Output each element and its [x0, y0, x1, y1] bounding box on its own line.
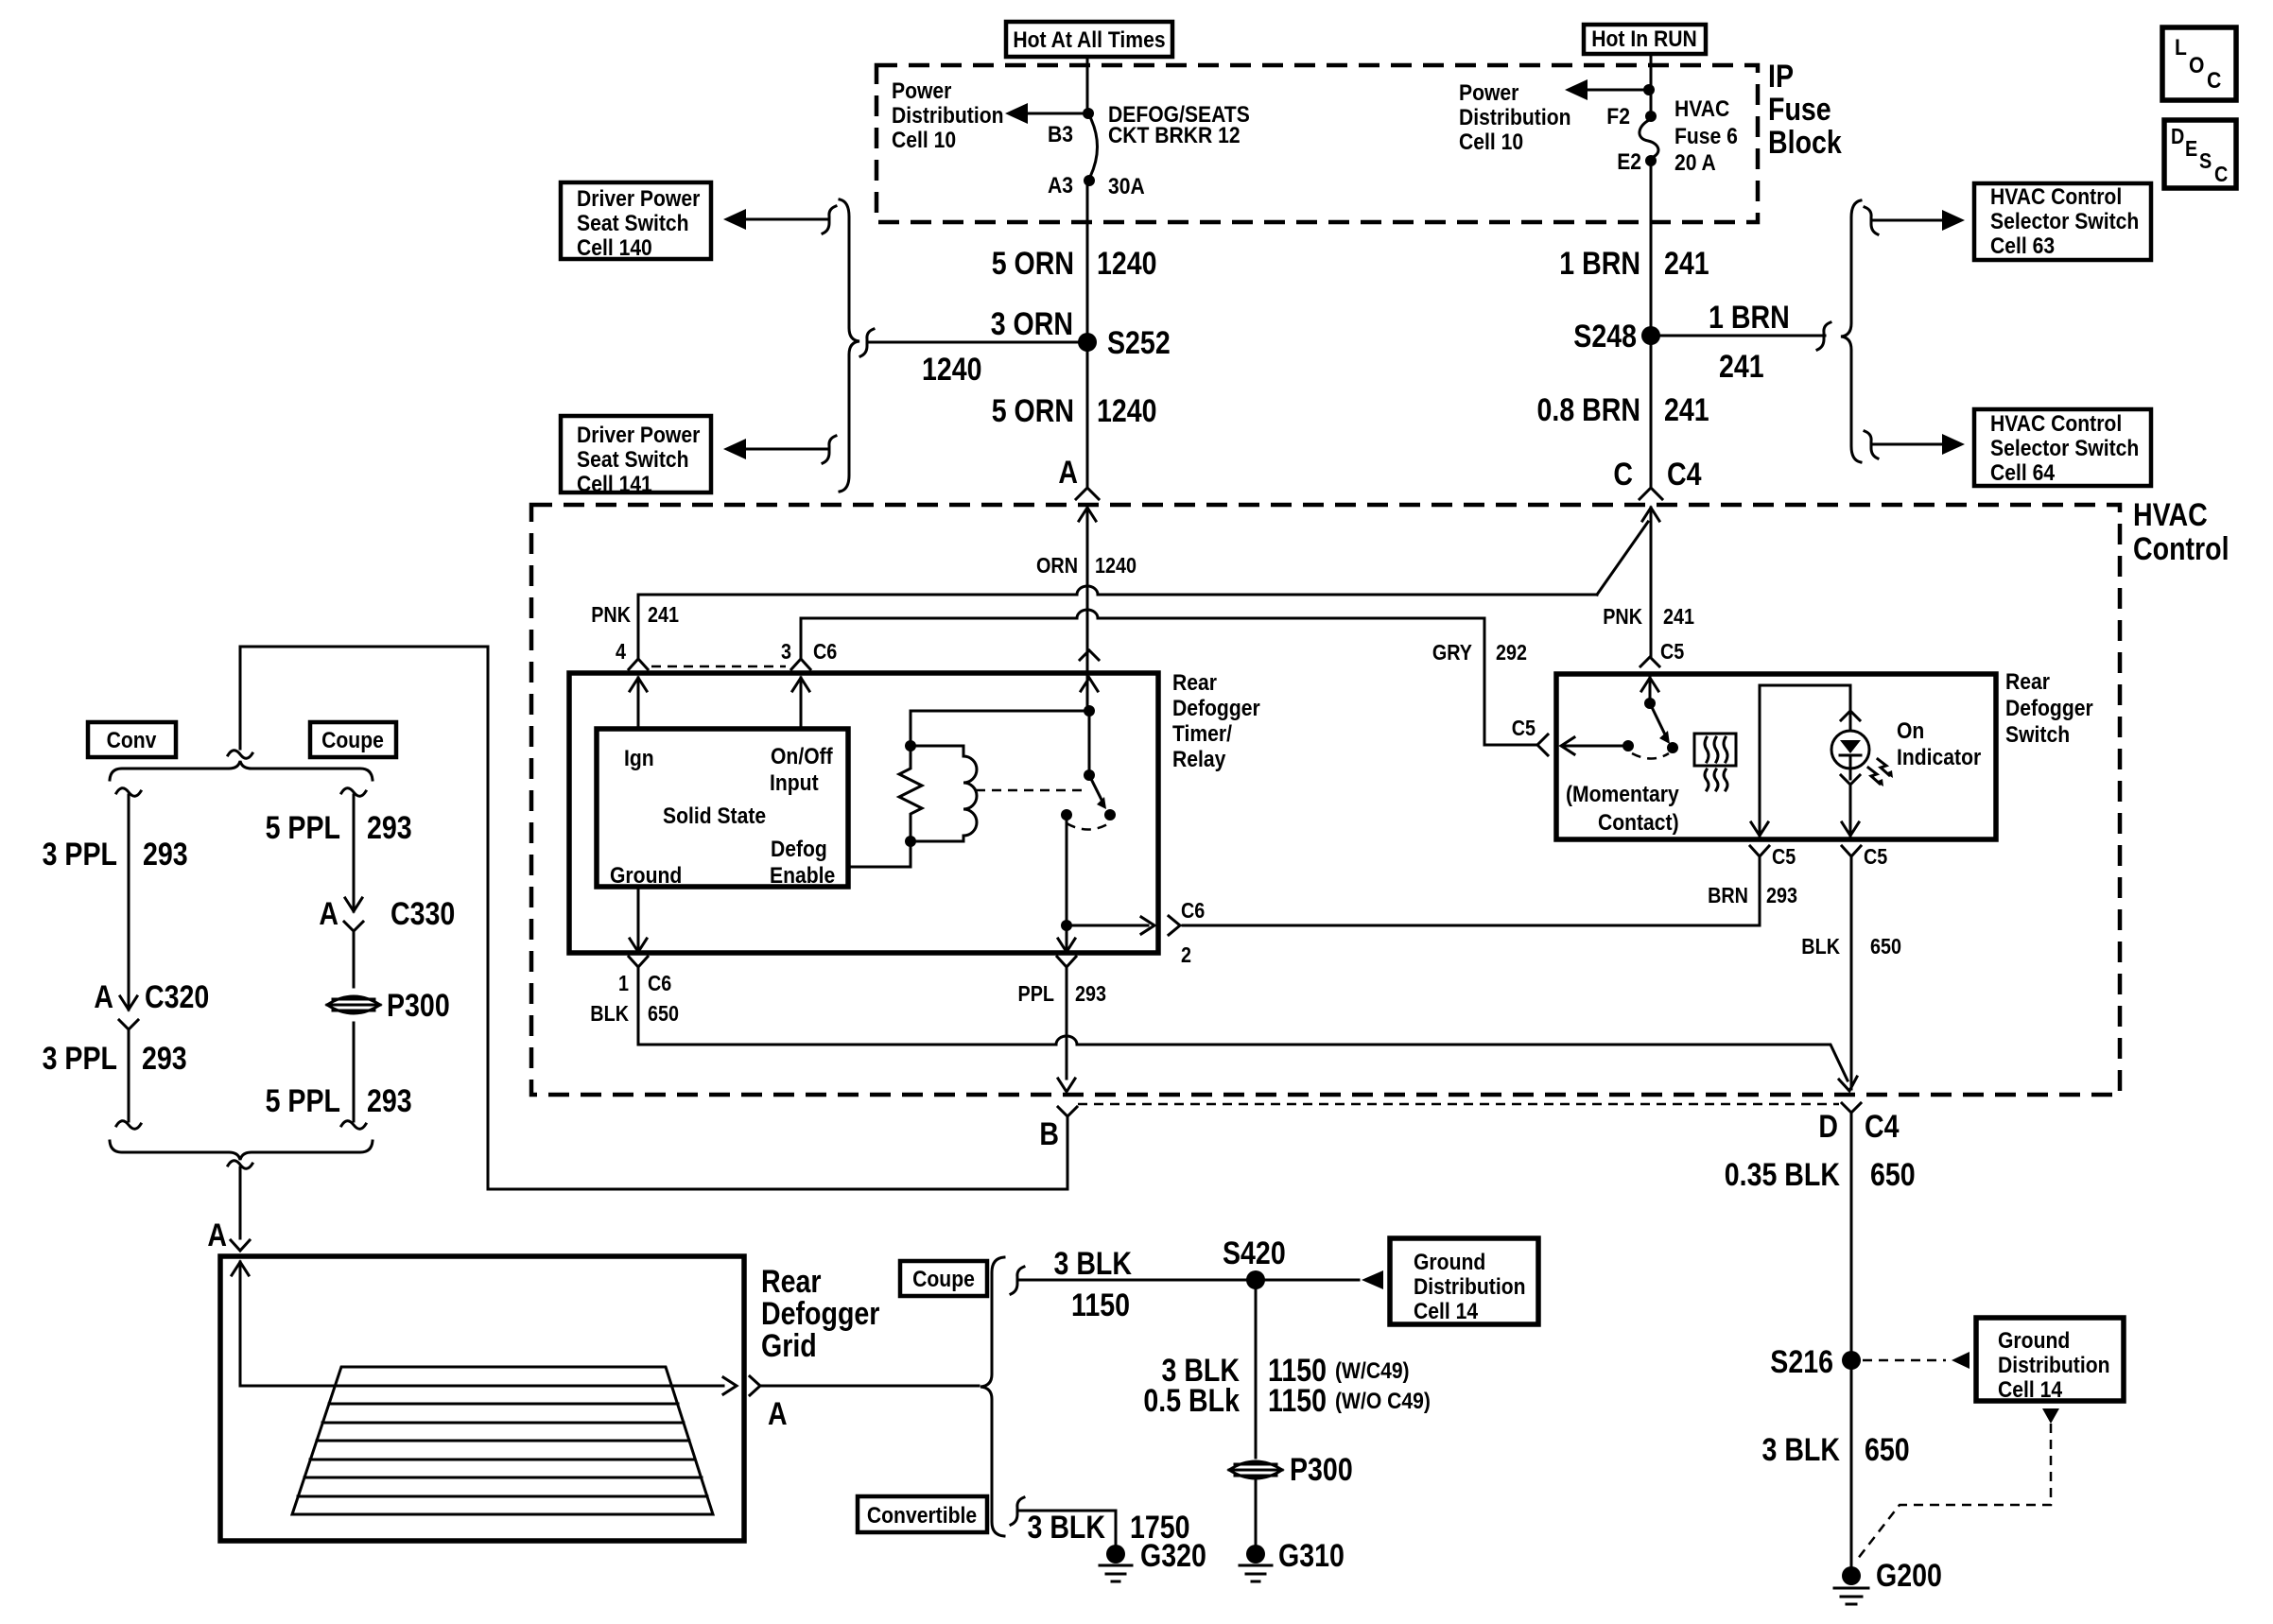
svg-text:PNK: PNK — [1603, 604, 1642, 629]
wire relay coil feed — [905, 508, 1095, 752]
svg-text:C6: C6 — [1181, 898, 1205, 923]
wire label 0.5 BLk 1150 (W/O C49) — [1143, 1383, 1431, 1419]
svg-text:Indicator: Indicator — [1897, 745, 1981, 770]
svg-text:3 PPL: 3 PPL — [43, 837, 117, 872]
wire label BLK 650 (relay ground) — [590, 1001, 679, 1026]
svg-text:293: 293 — [1766, 883, 1797, 907]
svg-text:(Momentary: (Momentary — [1566, 782, 1679, 807]
svg-text:HVAC Control: HVAC Control — [1990, 411, 2122, 437]
label box Coupe (top) — [310, 722, 396, 757]
label Rear Defogger Timer/Relay — [1172, 670, 1260, 772]
svg-text:Timer/: Timer/ — [1172, 721, 1232, 747]
wire grid output A — [240, 1377, 737, 1394]
svg-text:S420: S420 — [1223, 1235, 1286, 1271]
svg-text:20 A: 20 A — [1674, 150, 1716, 176]
wire arrow to Power Distribution Cell 10 (right) — [1565, 79, 1649, 100]
wire hot-in-run feed — [1650, 54, 1653, 115]
svg-text:C5: C5 — [1660, 639, 1684, 664]
wire into grid — [232, 1262, 249, 1386]
svg-text:D: D — [1818, 1109, 1838, 1145]
svg-text:C: C — [2214, 162, 2228, 186]
svg-text:650: 650 — [648, 1001, 679, 1026]
svg-text:Defogger: Defogger — [2005, 696, 2093, 721]
svg-text:Cell 63: Cell 63 — [1990, 233, 2055, 259]
svg-text:C6: C6 — [648, 971, 671, 995]
splice mark conv branch bottom — [116, 1121, 141, 1130]
wire BLK 650 from relay ground — [638, 967, 1857, 1091]
component box HVAC Control Selector Switch Cell 63 — [1974, 183, 2151, 260]
svg-text:HVAC Control: HVAC Control — [1990, 184, 2122, 210]
wire label PNK 241 (left) — [591, 602, 679, 627]
svg-text:1150: 1150 — [1071, 1287, 1130, 1323]
wire LED cathode out — [1841, 775, 1860, 836]
wire conv branch lower 3 PPL 293 — [43, 1029, 187, 1121]
svg-text:B3: B3 — [1048, 122, 1073, 147]
svg-text:1: 1 — [618, 971, 629, 995]
svg-text:1240: 1240 — [1097, 246, 1157, 282]
ground G310 — [1240, 1538, 1345, 1581]
wire PNK diagonal to connector C — [1597, 522, 1648, 595]
connector B of C4 — [1039, 1107, 1077, 1152]
wire label PNK 241 (right) — [1603, 604, 1694, 629]
label box Coupe (bottom) — [900, 1261, 987, 1296]
connector below relay (PPL) — [1057, 957, 1076, 967]
wire arrow to HVAC Control Selector Switch Cell 64 — [1865, 431, 1965, 458]
svg-text:30A: 30A — [1108, 174, 1145, 199]
component box Ground Distribution Cell 14 (lower) — [1976, 1318, 2124, 1403]
splice mark coupe branch bottom — [341, 1121, 366, 1130]
svg-text:650: 650 — [1870, 1157, 1916, 1193]
svg-text:Input: Input — [770, 770, 819, 796]
svg-text:C: C — [2207, 68, 2221, 94]
splice mark conv branch top — [116, 788, 141, 797]
svg-text:A: A — [319, 896, 338, 932]
connector A C330 — [319, 896, 455, 932]
svg-text:241: 241 — [648, 602, 679, 627]
dashed actuation linkage — [976, 789, 1084, 792]
LOC box — [2162, 27, 2236, 100]
svg-text:Power: Power — [892, 78, 951, 104]
wire BLK 650 down to D — [1850, 856, 1853, 1089]
wire B feedback loop to rear defogger grid — [240, 647, 1067, 1189]
wire label PPL 293 (relay out) — [1018, 981, 1107, 1006]
thin dashed connector C4 line — [1078, 1103, 1839, 1106]
circuit breaker DEFOG/SEATS CKT BRKR 12 30A — [1084, 117, 1098, 186]
label box Conv — [88, 722, 176, 757]
dashed arrow to Ground Distribution Cell 14 (S216) — [1863, 1352, 1969, 1369]
svg-text:C5: C5 — [1772, 844, 1796, 869]
svg-text:Fuse 6: Fuse 6 — [1674, 124, 1738, 149]
svg-text:5 ORN: 5 ORN — [992, 393, 1074, 429]
pin label Defog Enable — [770, 837, 835, 889]
pin label F2 — [1606, 104, 1630, 130]
connector pin 1 C6 below relay — [629, 957, 648, 967]
splice mark above Conv/Coupe brace — [228, 751, 252, 759]
connector label C5 (left of switch) — [1512, 716, 1536, 740]
connector D of C4 — [1818, 1103, 1899, 1145]
label Solid State — [663, 803, 766, 829]
brace merge Conv/Coupe (bottom) — [110, 1141, 373, 1160]
svg-text:4: 4 — [616, 639, 626, 664]
connector label C5 (top of switch) — [1660, 639, 1684, 664]
wire 3 BLK 1150 to S420 — [1019, 1246, 1359, 1323]
svg-text:293: 293 — [1075, 981, 1106, 1006]
text Power Distribution Cell 10 (left) — [892, 78, 1004, 153]
pin label E2 — [1617, 149, 1641, 175]
svg-text:B: B — [1039, 1116, 1059, 1152]
svg-text:Distribution: Distribution — [1459, 105, 1571, 130]
pin label B3 — [1048, 122, 1073, 147]
svg-text:650: 650 — [1870, 934, 1901, 959]
LED On Indicator — [1831, 685, 1869, 779]
svg-text:241: 241 — [1664, 392, 1709, 428]
label Rear Defogger Switch — [2005, 669, 2093, 748]
wire arrow to Power Distribution Cell 10 (left) — [1005, 103, 1087, 124]
svg-text:Coupe: Coupe — [912, 1267, 975, 1292]
svg-text:Switch: Switch — [2005, 722, 2070, 748]
svg-text:Convertible: Convertible — [867, 1503, 977, 1529]
wire label BLK 650 — [1801, 934, 1901, 959]
svg-text:G320: G320 — [1140, 1538, 1206, 1574]
dashed connector line C6 — [651, 665, 786, 668]
svg-text:A: A — [1058, 455, 1078, 491]
brace to driver power seat switches — [840, 199, 859, 492]
svg-text:650: 650 — [1865, 1432, 1910, 1468]
svg-text:S252: S252 — [1107, 325, 1171, 361]
momentary switch arm — [1641, 678, 1678, 753]
svg-text:241: 241 — [1719, 349, 1764, 385]
value label DEFOG/SEATS CKT BRKR 12 30A — [1108, 102, 1250, 199]
label On Indicator — [1897, 718, 1981, 770]
svg-text:C4: C4 — [1667, 457, 1702, 492]
connector pin 3 C6 — [791, 659, 810, 669]
svg-text:HVAC: HVAC — [2133, 497, 2208, 533]
wire Defog Enable to coil — [848, 836, 916, 867]
svg-text:241: 241 — [1663, 604, 1694, 629]
component box Driver Power Seat Switch Cell 141 — [561, 416, 711, 497]
svg-text:S216: S216 — [1770, 1344, 1833, 1380]
wire PNK 241 pin 4 horizontal — [638, 586, 1597, 659]
svg-text:O: O — [2189, 53, 2204, 78]
svg-text:HVAC: HVAC — [1674, 96, 1729, 122]
wire label 0.8 BRN 241 — [1537, 392, 1709, 428]
splice mark coupe branch top — [341, 788, 366, 797]
svg-text:C6: C6 — [813, 639, 837, 664]
svg-text:Ground: Ground — [610, 863, 682, 889]
svg-text:Hot At All Times: Hot At All Times — [1013, 27, 1165, 53]
svg-text:S248: S248 — [1573, 319, 1637, 354]
svg-text:5 ORN: 5 ORN — [992, 246, 1074, 282]
svg-text:P300: P300 — [387, 988, 450, 1024]
svg-text:(W/O C49): (W/O C49) — [1335, 1389, 1431, 1414]
svg-text:3 BLK: 3 BLK — [1028, 1510, 1106, 1546]
wire hot-at-all-times feed — [1086, 57, 1089, 115]
HVAC Control label — [2133, 497, 2230, 567]
wire conv branch upper 3 PPL 293 — [43, 795, 188, 1010]
svg-text:Cell 10: Cell 10 — [892, 128, 956, 153]
wire momentary output with arrow — [1561, 737, 1628, 754]
svg-text:BLK: BLK — [1801, 934, 1840, 959]
svg-text:C5: C5 — [1864, 844, 1887, 869]
svg-text:Selector Switch: Selector Switch — [1990, 436, 2139, 461]
node S420 — [1223, 1235, 1286, 1289]
dashed ground path from cell 14 — [1857, 1408, 2059, 1560]
LED light rays — [1868, 759, 1893, 786]
grommet P300 (coupe) — [327, 931, 450, 1024]
svg-text:Cell 140: Cell 140 — [577, 235, 652, 261]
svg-text:Enable: Enable — [770, 863, 835, 889]
relay switch arm — [1084, 711, 1116, 821]
pin label On/Off Input — [770, 744, 834, 796]
svg-text:Ign: Ign — [624, 746, 654, 771]
module U1 Solid State — [597, 729, 848, 887]
wire arrow to Driver Power Seat Switch Cell 140 — [723, 206, 836, 233]
wire label 3 BLK 1150 (W/C49) — [1162, 1353, 1410, 1389]
svg-text:Control: Control — [2133, 531, 2230, 567]
pin label C5 (BLK) — [1864, 844, 1887, 869]
svg-text:BRN: BRN — [1708, 883, 1748, 907]
wire On/Off Input pin — [792, 678, 809, 729]
connector A into HVAC control — [1076, 488, 1099, 673]
svg-text:3: 3 — [781, 639, 791, 664]
wire label 5 ORN 1240 (upper) — [992, 246, 1157, 282]
wire 3 ORN branch to seat switches — [860, 329, 1087, 356]
terminal label C C4 — [1613, 457, 1701, 492]
svg-text:BLK: BLK — [590, 1001, 629, 1026]
svg-text:F2: F2 — [1606, 104, 1630, 130]
svg-text:A3: A3 — [1048, 173, 1073, 199]
connector pin 4 C6 — [629, 659, 648, 669]
wire label BRN 293 — [1708, 883, 1797, 907]
wire arrow to Driver Power Seat Switch Cell 141 — [723, 436, 836, 463]
wire label 1 BRN 241 (vertical) — [1559, 246, 1709, 282]
wire PPL 293 down to B — [1058, 967, 1075, 1092]
brace split Conv/Coupe (top) — [110, 761, 373, 780]
wire BRN 293 to switch — [1183, 856, 1760, 925]
svg-text:Cell 64: Cell 64 — [1990, 460, 2056, 486]
svg-text:Rear: Rear — [2005, 669, 2050, 695]
svg-text:1240: 1240 — [922, 352, 982, 388]
svg-text:Defog: Defog — [771, 837, 827, 862]
svg-text:CKT BRKR 12: CKT BRKR 12 — [1108, 123, 1241, 148]
svg-text:293: 293 — [367, 810, 412, 846]
wire coupe branch upper 5 PPL 293 — [266, 795, 412, 911]
svg-text:Driver Power: Driver Power — [577, 423, 700, 448]
svg-text:0.5 BLk: 0.5 BLk — [1143, 1383, 1240, 1419]
pin label Ground — [610, 863, 682, 889]
svg-text:241: 241 — [1664, 246, 1709, 282]
svg-text:Contact): Contact) — [1598, 810, 1679, 836]
svg-text:Conv: Conv — [107, 728, 157, 753]
momentary switch contact — [1622, 740, 1669, 759]
component box Rear Defogger Grid — [220, 1256, 744, 1541]
splice mark coupe ground branch — [1011, 1267, 1024, 1294]
pin label 1 C6 — [618, 971, 671, 995]
svg-text:A: A — [207, 1218, 227, 1253]
svg-text:D: D — [2171, 124, 2184, 148]
svg-text:Driver Power: Driver Power — [577, 186, 700, 212]
connector chevron C5 below switch (BLK) — [1842, 846, 1861, 856]
IP Fuse Block dashed outline — [876, 65, 1758, 222]
svg-text:1150: 1150 — [1268, 1383, 1327, 1419]
label box Convertible — [858, 1496, 987, 1532]
connector C into HVAC control — [1640, 488, 1662, 656]
svg-text:G310: G310 — [1278, 1538, 1345, 1574]
svg-text:1240: 1240 — [1097, 393, 1157, 429]
pin label C6 2 — [1181, 898, 1205, 967]
svg-text:ORN: ORN — [1036, 553, 1078, 578]
label Rear Defogger Grid — [761, 1264, 879, 1364]
svg-text:Seat Switch: Seat Switch — [577, 211, 689, 236]
node junction at breaker B3 — [1083, 108, 1094, 119]
svg-text:IP: IP — [1768, 59, 1794, 95]
wire Ign pin — [630, 678, 647, 729]
connector into timer relay (ORN) — [1080, 650, 1099, 691]
connector chevron C5 top of switch — [1640, 657, 1659, 666]
svg-text:Ground: Ground — [1414, 1250, 1485, 1275]
svg-text:G200: G200 — [1876, 1558, 1942, 1594]
component box Rear Defogger Timer/Relay — [569, 673, 1158, 953]
svg-text:293: 293 — [143, 837, 188, 872]
wire 3 BLK 1750 to G320 — [1019, 1510, 1190, 1546]
svg-text:3 PPL: 3 PPL — [43, 1041, 117, 1077]
node junction at fuse F2 — [1643, 84, 1655, 95]
wire switch illumination feed — [1751, 685, 1850, 836]
pin label Ign — [624, 746, 654, 771]
component box Ground Distribution Cell 14 (upper) — [1390, 1238, 1538, 1324]
svg-text:A: A — [768, 1396, 788, 1432]
arrow to Ground Distribution Cell 14 (S420) — [1362, 1270, 1383, 1289]
svg-text:Grid: Grid — [761, 1328, 817, 1364]
wire down to grid terminal A — [207, 1167, 240, 1253]
svg-text:293: 293 — [142, 1041, 187, 1077]
svg-text:Distribution: Distribution — [1414, 1274, 1526, 1300]
node S252 — [1078, 325, 1171, 361]
svg-text:Defogger: Defogger — [1172, 696, 1260, 721]
svg-text:Distribution: Distribution — [1998, 1353, 2110, 1378]
svg-text:On: On — [1897, 718, 1924, 744]
wire 0.35 BLK 650 D to S216 — [1725, 1113, 1916, 1352]
svg-text:292: 292 — [1496, 640, 1527, 665]
svg-text:2: 2 — [1181, 942, 1191, 967]
svg-text:Power: Power — [1459, 80, 1518, 106]
svg-text:0.8 BRN: 0.8 BRN — [1537, 392, 1641, 428]
svg-text:PPL: PPL — [1018, 981, 1055, 1006]
svg-text:S: S — [2199, 148, 2212, 173]
ground G320 — [1100, 1538, 1206, 1581]
svg-text:Cell 10: Cell 10 — [1459, 130, 1523, 155]
svg-text:GRY: GRY — [1432, 640, 1472, 665]
svg-text:1 BRN: 1 BRN — [1709, 300, 1790, 336]
component box Rear Defogger Switch — [1556, 674, 1996, 839]
relay switch contact — [1061, 809, 1109, 830]
terminal label A — [1058, 455, 1078, 491]
splice mark below bottom brace — [228, 1161, 252, 1169]
svg-text:5 PPL: 5 PPL — [266, 810, 340, 846]
wire label GRY 292 — [1432, 640, 1527, 665]
svg-text:Cell 14: Cell 14 — [1998, 1377, 2063, 1403]
arrow out to C6 pin 2 — [1141, 917, 1154, 934]
wire grid output to brace — [762, 1385, 979, 1388]
svg-text:Block: Block — [1768, 125, 1842, 161]
svg-text:On/Off: On/Off — [771, 744, 834, 769]
connector chevron at grid A — [231, 1240, 250, 1251]
svg-text:C330: C330 — [390, 896, 455, 932]
relay coil L1 — [911, 746, 977, 841]
svg-text:Hot In RUN: Hot In RUN — [1591, 26, 1697, 52]
svg-text:C: C — [1613, 457, 1633, 492]
connector chevron C5 left of switch — [1537, 734, 1548, 755]
svg-text:1240: 1240 — [1095, 553, 1136, 578]
pin label A3 — [1048, 173, 1073, 199]
wire label 5 ORN 1240 (lower) — [992, 393, 1157, 429]
wire 3 BLK 650 S216 to G200 — [1762, 1360, 1910, 1567]
resistor (timer relay) — [899, 746, 922, 841]
svg-text:E: E — [2185, 136, 2197, 161]
svg-text:E2: E2 — [1617, 149, 1641, 175]
svg-text:Fuse: Fuse — [1768, 92, 1831, 128]
wire coupe branch lower 5 PPL 293 — [266, 1023, 412, 1121]
svg-text:PNK: PNK — [591, 602, 631, 627]
svg-text:5 PPL: 5 PPL — [266, 1083, 340, 1119]
wire arrow to HVAC Control Selector Switch Cell 63 — [1865, 207, 1965, 234]
node S248 — [1573, 319, 1660, 354]
component box Driver Power Seat Switch Cell 140 — [561, 182, 711, 261]
svg-text:Distribution: Distribution — [892, 103, 1004, 129]
svg-text:Coupe: Coupe — [321, 728, 384, 753]
wire label ORN 1240 — [1036, 553, 1136, 578]
grommet P300 (floor pan) — [1229, 1452, 1353, 1488]
defogger heater icon — [1694, 734, 1736, 790]
svg-text:Cell 141: Cell 141 — [577, 472, 652, 497]
svg-text:Solid State: Solid State — [663, 803, 766, 829]
svg-text:3 BLK: 3 BLK — [1054, 1246, 1133, 1282]
node S216 — [1770, 1344, 1861, 1380]
svg-text:3 BLK: 3 BLK — [1762, 1432, 1841, 1468]
svg-text:Selector Switch: Selector Switch — [1990, 209, 2139, 234]
wire to G310 — [1255, 1477, 1258, 1546]
wire GRY pin 3 horizontal — [801, 610, 1536, 745]
DESC box — [2164, 120, 2236, 188]
connector chevron C6 pin 2 — [1169, 916, 1180, 935]
svg-text:0.35 BLK: 0.35 BLK — [1725, 1157, 1841, 1193]
IP Fuse Block label — [1768, 59, 1842, 161]
svg-text:3 ORN: 3 ORN — [991, 306, 1073, 342]
svg-text:Relay: Relay — [1172, 747, 1226, 772]
wire switched output junction — [1061, 815, 1148, 931]
svg-text:Cell 14: Cell 14 — [1414, 1299, 1479, 1324]
wire 1 BRN branch to HVAC selector switches — [1651, 322, 1831, 350]
svg-text:Defogger: Defogger — [761, 1296, 879, 1332]
svg-text:(W/C49): (W/C49) — [1335, 1358, 1410, 1384]
defogger grid element — [292, 1367, 713, 1514]
wire breaker output down to A connector — [1086, 181, 1089, 488]
wire S420 down — [1255, 1280, 1258, 1458]
pin label 3 C6 — [781, 639, 837, 664]
wire label 1 BRN 241 (branch) — [1709, 300, 1790, 385]
connector chevron grid output A — [750, 1376, 788, 1432]
svg-text:Ground: Ground — [1998, 1328, 2070, 1354]
wire label 3 ORN 1240 — [922, 306, 1073, 388]
pin label C5 (BRN) — [1772, 844, 1796, 869]
value label HVAC Fuse 6 20 A — [1674, 96, 1738, 176]
svg-text:L: L — [2175, 35, 2187, 60]
component box HVAC Control Selector Switch Cell 64 — [1974, 409, 2151, 486]
splice mark convertible ground branch — [1011, 1497, 1024, 1525]
svg-text:P300: P300 — [1290, 1452, 1353, 1488]
brace split Coupe/Convertible — [980, 1257, 1004, 1536]
wire fuse output down to C connector — [1650, 161, 1653, 488]
